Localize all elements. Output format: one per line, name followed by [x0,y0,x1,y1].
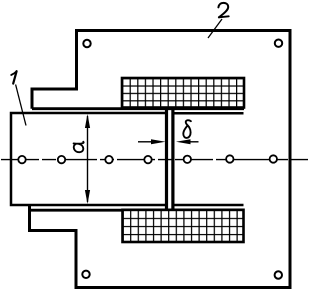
mounting hole top-left [83,40,90,47]
label 1 (drawn as path) [11,71,16,83]
centerline rivet circles [18,155,277,163]
coil winding top (hatched) [122,78,244,108]
centerline (dash-dot axis) [1,159,308,161]
dimension delta right arrow [176,139,199,144]
mounting hole bottom-right [275,271,282,278]
label 2 (drawn as path) [218,3,228,17]
mounting hole bottom-left [82,271,89,278]
leader line for 2 [208,19,222,38]
leader line for 1 [16,85,26,126]
yoke window top line [32,107,244,110]
dimension a arrow line [85,114,90,204]
dimension delta left arrow [138,139,166,144]
yoke 2 outline [30,31,291,288]
label delta (drawn as path) [183,120,191,138]
label a (drawn as path, rotated) [74,142,84,152]
yoke window bottom line [30,209,245,212]
armature 1 [11,109,167,211]
core (center limb) [173,109,244,211]
coil winding bottom (hatched) [123,210,244,242]
mounting hole top-right [275,40,282,47]
